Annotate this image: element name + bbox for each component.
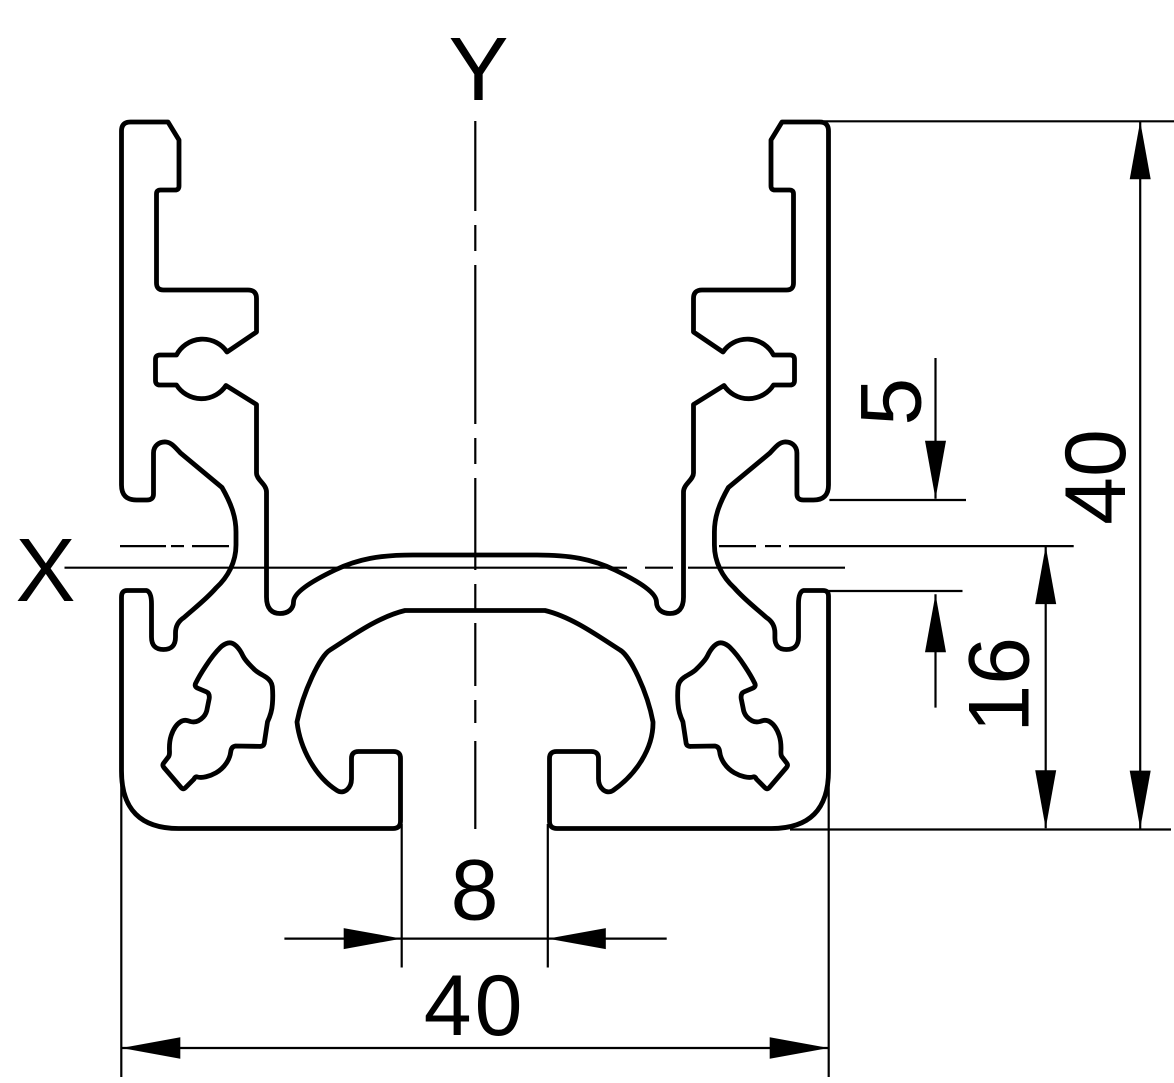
svg-text:8: 8 bbox=[451, 843, 499, 939]
svg-text:5: 5 bbox=[843, 378, 939, 426]
svg-text:40: 40 bbox=[424, 958, 526, 1054]
svg-text:16: 16 bbox=[951, 637, 1047, 733]
svg-text:X: X bbox=[16, 521, 76, 621]
svg-text:40: 40 bbox=[1048, 429, 1144, 525]
svg-text:Y: Y bbox=[449, 20, 509, 120]
